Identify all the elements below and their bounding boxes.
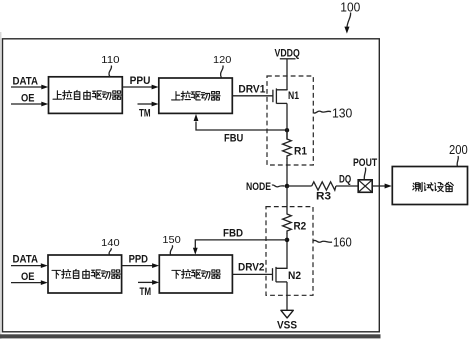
footer scan bar [0, 334, 381, 338]
FBD wire [195, 240, 287, 248]
wire node to R3 [287, 185, 312, 187]
svg-text:R1: R1 [294, 146, 307, 158]
wire DRV2 150->N2 gate [232, 273, 272, 275]
block 140 pull-down pre-driver [48, 255, 122, 293]
wire TM into 150 [138, 281, 153, 283]
transistor N1 [273, 88, 287, 103]
wire VDDQ rail down [286, 59, 288, 90]
leader arrow for 100 [347, 13, 351, 28]
block 120 pull-up driver [159, 78, 233, 113]
svg-text:TM: TM [140, 286, 152, 298]
wire PPU 110->120 [122, 86, 153, 88]
leader 110 [109, 66, 112, 77]
NODE leader squiggle [272, 185, 285, 187]
wire DRV1 120->N1 gate [232, 95, 273, 97]
svg-text:N1: N1 [288, 90, 299, 102]
outer chip box 100 [3, 39, 380, 332]
wire DATA into 140 [11, 265, 42, 267]
transistor N2 [273, 267, 288, 282]
wire PPD 140->150 [122, 265, 154, 267]
svg-text:PPD: PPD [129, 254, 148, 266]
node junction dot [285, 184, 290, 189]
svg-text:N2: N2 [288, 270, 301, 282]
svg-text:100: 100 [340, 0, 360, 14]
wire R1 to node [286, 158, 288, 186]
leader 140 [109, 248, 111, 255]
svg-text:130: 130 [332, 106, 352, 120]
svg-text:R2: R2 [294, 221, 307, 233]
wire R2 to FBD node [286, 233, 288, 267]
block 120 text 上拉驱动器 [172, 91, 221, 100]
POUT leader [364, 168, 365, 180]
FBU junction dot [285, 128, 289, 132]
scan edge artifact [0, 32, 2, 339]
FBU wire [196, 122, 287, 131]
wire DATA into 110 [11, 86, 43, 88]
leader squiggle 160 [313, 240, 332, 242]
svg-text:160: 160 [333, 235, 352, 249]
box 200 text 测试设备 [413, 182, 454, 191]
svg-text:FBD: FBD [223, 228, 243, 240]
VDDQ power bar [280, 58, 296, 60]
leader 120 [221, 66, 224, 78]
svg-text:VSS: VSS [277, 319, 297, 331]
wire N2 source to VSS [286, 282, 288, 310]
svg-text:FBU: FBU [224, 133, 243, 145]
block 110 text 上拉自由驱动器 [53, 90, 121, 99]
svg-text:DATA: DATA [13, 75, 39, 87]
wire node down to R2 [286, 186, 288, 215]
svg-text:110: 110 [101, 54, 120, 66]
leader 150 [170, 245, 172, 255]
dashed box 160 [266, 207, 313, 296]
svg-text:DQ: DQ [339, 174, 352, 186]
box 200 test equipment [392, 167, 467, 205]
svg-text:POUT: POUT [353, 157, 377, 169]
wire TM into 120 [138, 103, 153, 105]
wire OE into 110 [11, 103, 43, 105]
FBD junction dot [285, 238, 290, 243]
wire N1 source to FBU node [286, 103, 288, 139]
pad POUT (crossed square) [358, 180, 372, 193]
block 150 text 下拉驱动器 [172, 270, 221, 279]
block 150 pull-down driver [159, 255, 232, 293]
svg-text:OE: OE [21, 92, 35, 104]
svg-text:R3: R3 [316, 191, 331, 203]
svg-text:PPU: PPU [130, 75, 151, 87]
resistor R3 [312, 182, 336, 190]
wire OE into 140 [11, 282, 42, 284]
leader squiggle 130 [314, 111, 332, 113]
svg-text:OE: OE [21, 271, 35, 283]
svg-text:140: 140 [101, 237, 120, 249]
block 110 pull-up pre-driver [49, 77, 123, 114]
ground VSS symbol [281, 310, 293, 318]
wire R3 to pad [336, 185, 358, 187]
resistor R2 [283, 214, 292, 234]
svg-text:NODE: NODE [246, 181, 271, 193]
svg-text:DRV1: DRV1 [238, 83, 265, 95]
dashed box 130 [267, 76, 313, 165]
svg-text:120: 120 [213, 54, 232, 66]
leader 200 [457, 156, 458, 166]
resistor R1 [283, 130, 292, 159]
block 140 text 下拉自由驱动器 [52, 269, 120, 278]
svg-text:DATA: DATA [13, 254, 39, 266]
svg-text:DRV2: DRV2 [238, 262, 265, 274]
svg-text:150: 150 [162, 234, 181, 246]
svg-text:VDDQ: VDDQ [275, 48, 301, 60]
wire pad to tester [372, 185, 386, 187]
svg-text:200: 200 [449, 143, 468, 157]
svg-text:TM: TM [139, 107, 151, 119]
